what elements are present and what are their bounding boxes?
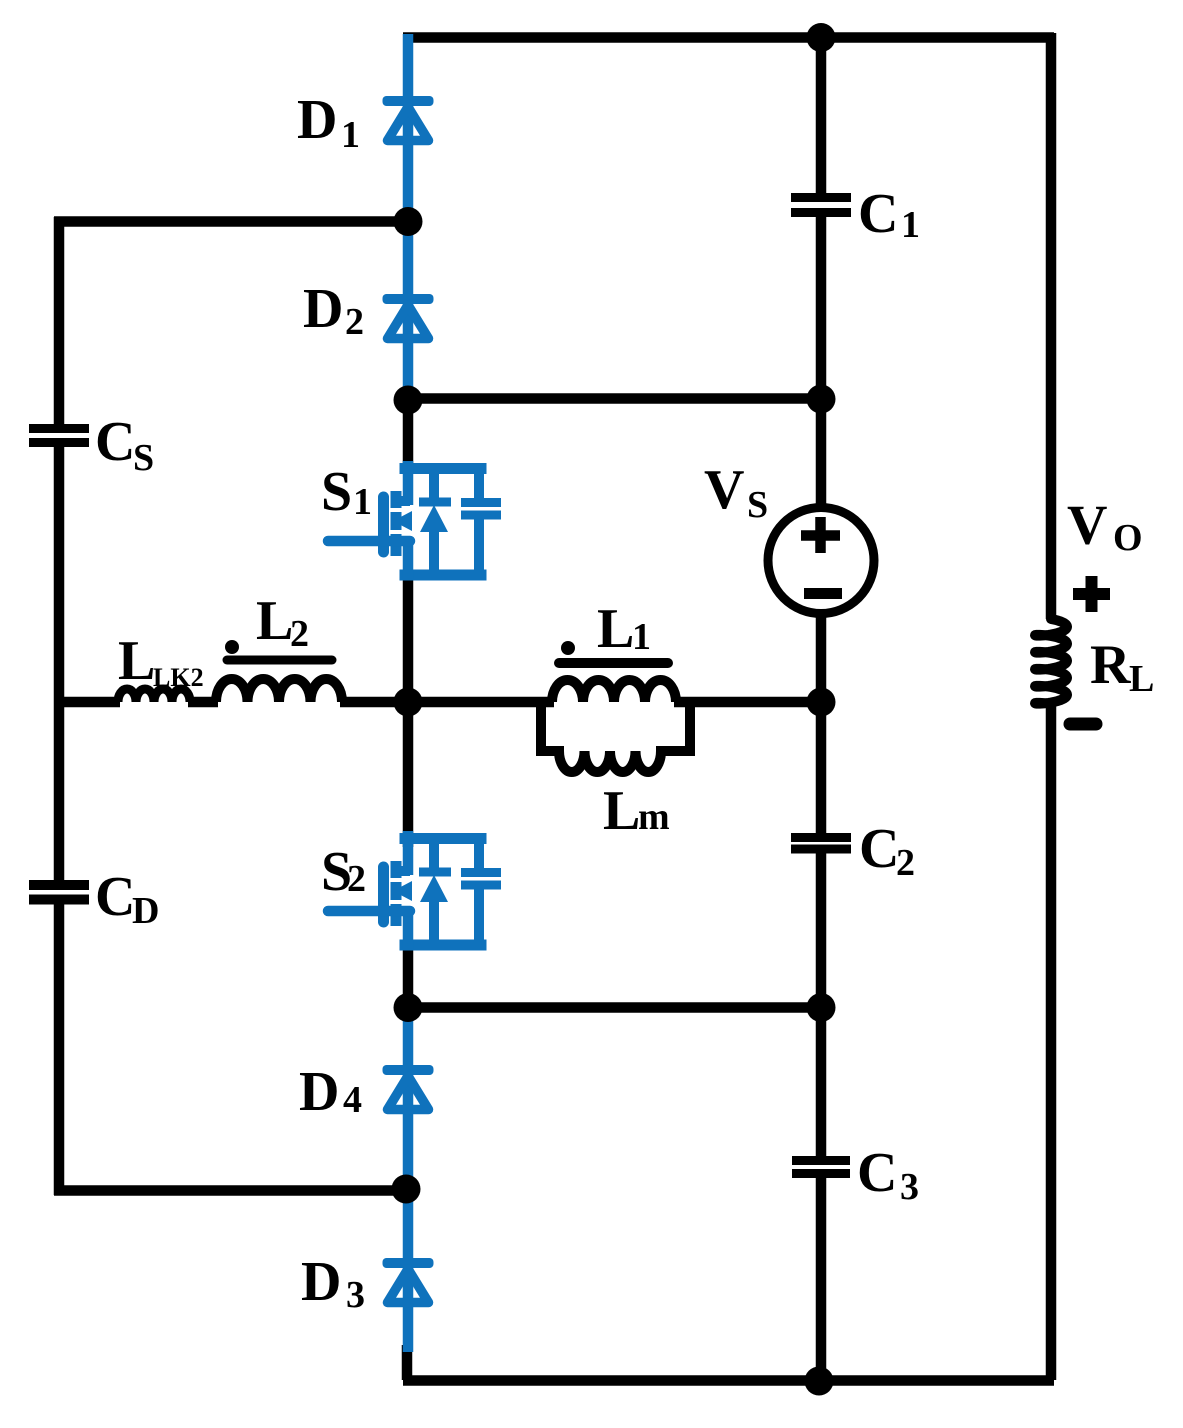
node C2-C3 junction	[807, 993, 836, 1022]
wire D2 node to S1 drain	[403, 398, 414, 472]
wire right rail lower	[1046, 703, 1057, 1380]
diode D4	[383, 1065, 434, 1110]
wire left rail above CS	[54, 217, 65, 424]
diode D3	[383, 1258, 434, 1303]
diode D1	[383, 96, 434, 141]
label D4	[299, 1061, 362, 1123]
svg-text:D: D	[132, 890, 159, 932]
svg-text:S: S	[321, 461, 352, 523]
svg-text:C: C	[859, 818, 899, 880]
wire blue node through D4 and D3 to bottom corner	[403, 1006, 414, 1352]
label L2	[256, 590, 309, 655]
MOSFET switch S1 (with body diode and parallel capacitor)	[328, 461, 501, 579]
svg-text:1: 1	[353, 481, 372, 523]
wire between LLK2 and L2	[188, 697, 218, 708]
wire left rail below CD	[54, 904, 65, 1195]
svg-text:2: 2	[290, 613, 309, 655]
label D3	[301, 1251, 365, 1316]
wire bottom rail	[403, 1375, 1054, 1386]
svg-text:C: C	[95, 411, 135, 473]
VO plus sign	[1073, 576, 1110, 612]
wire S2 bottom row	[408, 1002, 821, 1013]
wire blue top rail corner through D1 and D2 to node	[403, 34, 414, 400]
wire top node to C1	[816, 33, 827, 194]
svg-text:2: 2	[345, 301, 364, 343]
wire top rail	[403, 32, 1054, 43]
svg-text:3: 3	[900, 1166, 919, 1208]
svg-text:1: 1	[341, 114, 360, 156]
wire S2 source to row node	[403, 942, 414, 1010]
svg-text:2: 2	[896, 842, 915, 884]
node bottom rail junction	[805, 1367, 834, 1396]
wire node row to D1-D2 junction	[54, 216, 408, 227]
svg-text:L: L	[1129, 658, 1154, 700]
wire left rail CS to CD	[54, 447, 65, 881]
wire S1 source to center node	[403, 572, 414, 704]
L2 core bar	[227, 656, 332, 665]
node D2 bottom junction	[394, 386, 423, 415]
inductor L2 winding	[216, 679, 342, 702]
label S2	[321, 841, 366, 903]
inductor L1 winding	[552, 680, 676, 702]
capacitor CS	[29, 429, 89, 443]
capacitor C2	[791, 838, 851, 850]
capacitor C3	[792, 1161, 850, 1174]
svg-text:4: 4	[343, 1079, 362, 1121]
svg-text:L: L	[118, 630, 155, 692]
svg-text:C: C	[95, 866, 135, 928]
VO minus sign	[1070, 718, 1096, 731]
L1 core bar	[559, 658, 668, 668]
resistor RL (coil style)	[1035, 615, 1067, 704]
svg-text:C: C	[857, 1142, 897, 1204]
label C3	[857, 1142, 919, 1208]
label C1	[858, 183, 920, 246]
wire VS node to source top	[816, 400, 827, 506]
svg-text:V: V	[1067, 495, 1107, 557]
node VS bottom junction	[807, 688, 836, 717]
node VS top junction	[807, 385, 836, 414]
wire L2 to center node	[340, 697, 410, 708]
node center junction	[394, 688, 423, 717]
svg-text:R: R	[1090, 634, 1131, 696]
wire C1 to VS node	[816, 217, 827, 400]
svg-text:LK2: LK2	[153, 663, 204, 692]
wire CD row to D4-D3 junction	[54, 1185, 406, 1196]
wire D2 junction to VS top	[408, 393, 821, 404]
wire C2 to row node	[816, 853, 827, 1009]
label VO	[1067, 495, 1143, 560]
label LLK2	[118, 630, 204, 692]
svg-text:C: C	[858, 183, 898, 245]
svg-text:1: 1	[632, 616, 651, 658]
wire row node to C3	[816, 1007, 827, 1156]
svg-text:L: L	[597, 598, 634, 660]
label Lm	[603, 780, 670, 842]
wire bottom-left corner	[402, 1345, 413, 1380]
node top rail junction	[807, 23, 836, 52]
wire right rail upper	[1046, 33, 1057, 619]
wire center node to S2 drain	[403, 700, 414, 847]
svg-text:S: S	[133, 437, 154, 479]
svg-text:D: D	[303, 278, 343, 340]
label VS	[704, 459, 768, 526]
wire source bottom to mid node	[816, 615, 827, 704]
svg-text:V: V	[704, 459, 744, 521]
node S2 bottom junction	[394, 993, 423, 1022]
label D1	[297, 89, 360, 156]
svg-text:O: O	[1113, 517, 1143, 559]
wire L1 to VS bottom node	[674, 697, 821, 708]
svg-text:L: L	[256, 590, 293, 652]
capacitor C1	[791, 198, 851, 213]
L1 polarity dot	[561, 641, 575, 655]
label C2	[859, 818, 915, 884]
L2 polarity dot	[225, 640, 239, 654]
inductor Lm (magnetizing) parallel branch	[541, 700, 690, 772]
label L1	[597, 598, 651, 660]
svg-text:2: 2	[347, 858, 366, 900]
voltage source VS	[768, 508, 874, 614]
wire C3 to bottom node	[816, 1177, 827, 1381]
label CS	[95, 411, 154, 479]
svg-text:3: 3	[346, 1274, 365, 1316]
label RL	[1090, 634, 1154, 700]
svg-text:m: m	[638, 796, 670, 838]
svg-text:S: S	[747, 484, 768, 526]
svg-text:L: L	[603, 780, 640, 842]
MOSFET switch S2 (with body diode and parallel capacitor)	[328, 831, 501, 949]
inductor LLK2	[118, 689, 190, 702]
svg-text:1: 1	[901, 204, 920, 246]
svg-text:D: D	[301, 1251, 341, 1313]
node D1-D2 junction	[394, 207, 423, 236]
diode D2	[383, 294, 434, 339]
label S1	[321, 461, 372, 523]
capacitor CD	[29, 885, 89, 900]
svg-text:D: D	[297, 89, 337, 151]
wire mid row left	[54, 697, 120, 708]
node D4-D3 junction	[392, 1175, 421, 1204]
wire center node to L1	[408, 697, 554, 708]
label CD	[95, 866, 159, 932]
svg-text:D: D	[299, 1061, 339, 1123]
label D2	[303, 278, 364, 343]
wire mid node to C2	[816, 702, 827, 833]
